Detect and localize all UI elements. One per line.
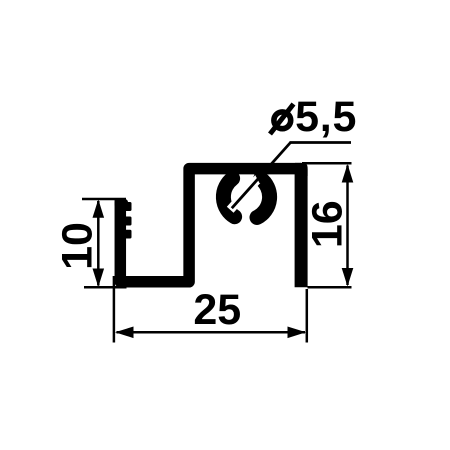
dimension 25: left extension line	[113, 276, 116, 343]
tooth 1 on left wall	[124, 202, 132, 211]
dimension 16: bottom extension line	[308, 286, 352, 289]
profile outline: right wall (thicker)	[295, 169, 308, 288]
leader line diagonal for ø5,5	[232, 143, 291, 209]
left wall rounded top shoulder	[115, 199, 129, 208]
dimension 25: dimension line	[117, 331, 306, 334]
dimension 10: top arrowhead	[93, 199, 105, 218]
dimension 10: dimension line	[97, 201, 100, 286]
dimension 16: top arrowhead	[342, 164, 354, 183]
tooth 3 on left wall	[124, 230, 132, 239]
tooth 2 on left wall	[124, 217, 132, 226]
dimension 25: right extension line	[306, 289, 309, 343]
dimension 25: right arrowhead	[288, 327, 307, 339]
screw channel: left crescent arc	[223, 178, 234, 216]
dimension 16: dimension line	[346, 166, 349, 286]
dimension 16: top extension line	[302, 162, 352, 165]
svg-text:16: 16	[304, 200, 352, 248]
screw channel: right crescent arc	[257, 179, 270, 218]
profile outline: top-right corner patch (rounded)	[295, 163, 308, 176]
dimension 10: top extension line	[82, 198, 126, 201]
svg-text:10: 10	[53, 222, 101, 270]
screw channel: right crescent stem to bar	[260, 171, 264, 178]
dimension 25: left arrowhead	[115, 327, 134, 339]
label ø5,5: diameter symbol circle	[274, 112, 291, 129]
label ø5,5: diameter symbol slash	[270, 104, 294, 134]
leader line white halo (channel gap through crescents)	[230, 143, 290, 210]
profile outline: small left wall, bottom bar, U left wall, top bar	[120, 169, 301, 282]
screw channel: right stem fill patch over slash near bar	[254, 172, 272, 183]
dimension 10: bottom arrowhead	[93, 269, 105, 288]
leader line horizontal underline for ø5,5	[290, 141, 352, 144]
dimension 10: bottom extension line	[84, 286, 127, 289]
dimension 16: bottom arrowhead	[342, 268, 354, 287]
svg-text:5,5: 5,5	[295, 93, 357, 141]
svg-text:25: 25	[193, 286, 241, 334]
